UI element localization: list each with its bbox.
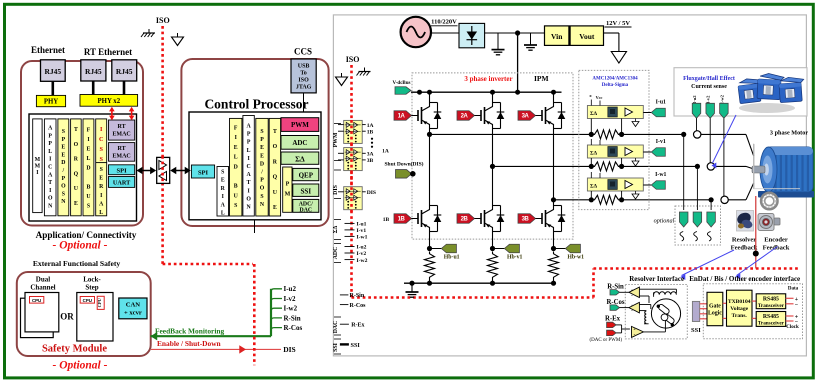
svg-text:I-u1: I-u1 (357, 222, 367, 228)
svg-text:3A: 3A (522, 114, 530, 120)
svg-text:DAC: DAC (333, 321, 339, 334)
svg-text:Trans.: Trans. (732, 313, 748, 319)
svg-text:External Functional Safety: External Functional Safety (33, 259, 121, 268)
svg-text:Hb-w1: Hb-w1 (567, 255, 584, 261)
svg-text:R-Cos: R-Cos (350, 303, 367, 309)
svg-text:I-v1: I-v1 (357, 228, 367, 234)
svg-text:I-v2: I-v2 (357, 251, 367, 257)
svg-text:Transceiver: Transceiver (758, 321, 785, 327)
svg-text:Safety Module: Safety Module (42, 344, 107, 355)
svg-text:PWM: PWM (291, 121, 309, 129)
svg-text:+: + (631, 288, 634, 293)
svg-text:I-v1: I-v1 (656, 139, 666, 145)
svg-text:R-Sin: R-Sin (350, 293, 365, 299)
svg-text:EMAC: EMAC (112, 154, 130, 160)
svg-text:CCS: CCS (294, 47, 312, 57)
svg-text:+: + (633, 327, 636, 332)
svg-text:Vin: Vin (551, 32, 563, 41)
svg-text:- Optional -: - Optional - (53, 240, 108, 252)
svg-text:1A: 1A (382, 148, 389, 154)
svg-text:Control Processor: Control Processor (204, 97, 308, 112)
svg-text:I-u2: I-u2 (357, 245, 367, 251)
svg-text:Shut Down(DIS): Shut Down(DIS) (385, 161, 424, 168)
svg-text:Vcc: Vcc (596, 95, 603, 100)
svg-text:UART: UART (113, 180, 131, 187)
svg-text:EMAC: EMAC (112, 132, 130, 138)
svg-text:Lock-: Lock- (83, 276, 101, 284)
svg-text:RS485: RS485 (763, 296, 779, 302)
svg-text:Step: Step (85, 284, 98, 292)
svg-text:I-u1: I-u1 (656, 100, 666, 106)
svg-text:DAC: DAC (300, 207, 313, 213)
svg-text:Ethernet: Ethernet (31, 45, 65, 55)
svg-text:IPM: IPM (534, 74, 549, 83)
svg-text:TXB0104: TXB0104 (728, 299, 751, 305)
svg-text:ΣΔ: ΣΔ (590, 184, 598, 190)
svg-text:Resolver: Resolver (732, 237, 756, 244)
svg-text:SSI: SSI (301, 187, 312, 195)
svg-text:DIS: DIS (333, 185, 339, 195)
svg-text:12V / 5V: 12V / 5V (606, 20, 630, 27)
svg-text:1B: 1B (367, 130, 374, 136)
svg-text:1B: 1B (383, 217, 390, 223)
svg-text:SSI: SSI (691, 327, 701, 334)
svg-text:ΣΔ: ΣΔ (295, 154, 305, 163)
svg-text:PHY x2: PHY x2 (98, 98, 121, 105)
svg-text:Channel: Channel (30, 284, 55, 292)
svg-text:RT: RT (118, 146, 126, 152)
svg-text:CPU: CPU (97, 297, 102, 307)
svg-text:Vout: Vout (579, 32, 595, 41)
svg-text:110/220V: 110/220V (431, 19, 457, 26)
svg-text:CPU: CPU (32, 298, 41, 303)
svg-text:1A: 1A (398, 114, 406, 120)
svg-text:ISO: ISO (346, 55, 360, 64)
svg-text:SPI: SPI (198, 169, 209, 176)
svg-text:R-Ex: R-Ex (605, 315, 621, 322)
svg-text:RJ45: RJ45 (85, 67, 102, 76)
svg-text:I-w2: I-w2 (357, 258, 368, 264)
svg-text:Resolver Interface: Resolver Interface (629, 275, 684, 283)
svg-text:Logic: Logic (708, 310, 722, 316)
svg-text:1A: 1A (367, 123, 374, 129)
svg-text:−: − (795, 302, 799, 308)
svg-text:1B: 1B (398, 217, 406, 223)
svg-text:ISO: ISO (298, 78, 309, 84)
svg-text:RJ45: RJ45 (116, 67, 133, 76)
svg-text:SPI: SPI (117, 167, 128, 174)
svg-text:ΣΔ: ΣΔ (590, 111, 598, 117)
svg-text:CAN: CAN (126, 302, 141, 309)
svg-text:2B: 2B (461, 217, 469, 223)
svg-text:ADC: ADC (333, 247, 339, 260)
svg-text:I-w2: I-w2 (284, 305, 298, 313)
svg-text:3B: 3B (367, 158, 374, 164)
svg-text:R-Ex: R-Ex (351, 323, 364, 329)
svg-text:R-Sin: R-Sin (284, 314, 301, 322)
svg-text:EnDat / Bis / Other encoder in: EnDat / Bis / Other encoder interface (689, 275, 800, 283)
svg-text:JTAG: JTAG (296, 85, 312, 91)
svg-text:ΣΔ: ΣΔ (333, 225, 339, 233)
svg-text:I-w2: I-w2 (719, 94, 724, 104)
svg-text:Hb-u1: Hb-u1 (444, 255, 460, 261)
svg-text:Gate: Gate (709, 303, 721, 309)
svg-text:I-u2: I-u2 (692, 95, 697, 104)
svg-text:RT: RT (118, 124, 126, 130)
svg-text:DIS: DIS (367, 190, 376, 196)
svg-text:+: + (631, 303, 634, 308)
svg-text:To: To (300, 71, 306, 77)
svg-text:Current sense: Current sense (691, 84, 727, 90)
svg-text:(DAC or PWM): (DAC or PWM) (590, 338, 623, 343)
svg-text:Enable / Shut-Down: Enable / Shut-Down (157, 339, 221, 348)
svg-text:SSI: SSI (351, 342, 361, 349)
svg-text:FeedBack Monitoring: FeedBack Monitoring (155, 327, 224, 336)
svg-text:Dual: Dual (36, 276, 50, 284)
svg-text:3 phase Motor: 3 phase Motor (770, 130, 808, 137)
svg-text:Voltage: Voltage (730, 306, 748, 312)
svg-text:ΣΔ: ΣΔ (590, 151, 598, 157)
svg-text:QEP: QEP (299, 172, 314, 180)
svg-text:Clock: Clock (786, 325, 799, 330)
svg-text:AMC1204/AMC1304: AMC1204/AMC1304 (592, 77, 638, 82)
svg-text:OR: OR (60, 312, 74, 322)
svg-text:RJ45: RJ45 (44, 67, 61, 76)
svg-text:3B: 3B (522, 217, 530, 223)
svg-text:I-v2: I-v2 (284, 295, 297, 303)
svg-text:I-w1: I-w1 (357, 235, 368, 241)
svg-text:Data: Data (788, 286, 799, 291)
svg-text:+ xcvr: + xcvr (124, 310, 142, 317)
svg-text:- Optional -: - Optional - (53, 360, 108, 372)
svg-text:SSI: SSI (333, 342, 339, 351)
svg-text:2A: 2A (461, 114, 469, 120)
svg-text:R-Cos: R-Cos (284, 324, 303, 332)
svg-text:I-w1: I-w1 (655, 172, 666, 178)
svg-text:Transceiver: Transceiver (758, 303, 785, 309)
svg-text:Delta-Sigma: Delta-Sigma (602, 83, 629, 88)
svg-text:I-u2: I-u2 (284, 285, 297, 293)
svg-text:ISO: ISO (156, 16, 170, 25)
svg-text:Feedback: Feedback (731, 245, 758, 252)
svg-text:3A: 3A (367, 152, 374, 158)
svg-text:PHY: PHY (44, 99, 58, 106)
svg-text:RT Ethernet: RT Ethernet (84, 47, 132, 57)
svg-text:Encoder: Encoder (764, 237, 788, 244)
svg-text:Fluxgate/Hall Effect: Fluxgate/Hall Effect (683, 76, 735, 82)
svg-text:USB: USB (298, 64, 310, 70)
svg-text:3 phase inverter: 3 phase inverter (464, 75, 512, 83)
svg-text:Hb-v1: Hb-v1 (507, 255, 523, 261)
svg-text:ADC: ADC (292, 139, 307, 147)
svg-text:optional: optional (654, 218, 675, 225)
svg-text:CPU: CPU (83, 298, 92, 303)
svg-text:RS485: RS485 (763, 314, 779, 320)
svg-text:V-dcBus: V-dcBus (393, 81, 411, 86)
svg-text:DIS: DIS (283, 345, 296, 354)
svg-text:I-v2: I-v2 (706, 95, 711, 104)
svg-text:PWM: PWM (333, 132, 339, 147)
